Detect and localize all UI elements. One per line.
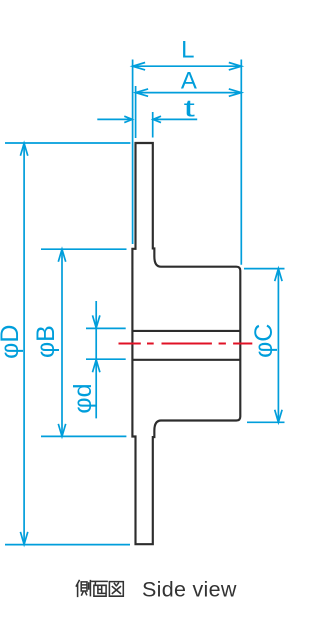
dimension D extension line bottom [5, 544, 130, 546]
dimension D line [23, 143, 25, 544]
dimension d extension line top [86, 327, 126, 329]
bore line upper [132, 330, 240, 332]
svg-text:A: A [181, 67, 197, 94]
svg-text:t: t [184, 95, 196, 122]
dimension L line [133, 65, 242, 67]
dimension A extension line left [135, 86, 137, 138]
dimension C extension line top [244, 268, 285, 270]
dimension C line [277, 269, 279, 423]
svg-text:L: L [181, 37, 194, 64]
svg-text:φC: φC [250, 324, 278, 358]
dimension t extension line right [152, 112, 154, 138]
svg-text:φD: φD [0, 325, 24, 359]
dimension D arrow top [20, 143, 27, 156]
dimension L/A extension line right [240, 60, 242, 265]
caption kanji face (men) [92, 581, 107, 596]
dimension B extension line top [41, 248, 127, 250]
dimension D extension line top [5, 142, 130, 144]
dimension A arrow right [229, 89, 242, 96]
dimension D arrow bottom [20, 532, 27, 545]
dimension L arrow left [133, 63, 146, 70]
dimension C extension line bottom [247, 421, 285, 423]
dimension t arrow left (points right) [124, 116, 132, 122]
svg-text:φd: φd [69, 383, 97, 413]
gear body profile [132, 143, 240, 544]
dimension B arrow bottom [58, 424, 65, 437]
dimension B extension line bottom [41, 435, 126, 437]
dimension d extension line bottom [86, 358, 126, 360]
dimension C arrow bottom [275, 410, 282, 423]
dimension t arrow right (points left) [153, 116, 161, 122]
centerline (red dash-dot) [119, 343, 253, 345]
dimension B arrow top [58, 249, 65, 262]
caption kanji drawing (zu) [109, 582, 123, 597]
dimension t leader left [97, 118, 132, 120]
caption kanji side (sou) [76, 581, 90, 597]
dimension d arrow lower (points up) [93, 360, 100, 373]
dimension A arrow left [136, 89, 149, 96]
dimension t leader right [153, 118, 197, 120]
svg-text:Side view: Side view [142, 577, 237, 601]
dimension C arrow top [275, 269, 282, 282]
dimension L arrow right [229, 63, 242, 70]
svg-text:φB: φB [32, 325, 60, 358]
dimension B line [61, 249, 63, 436]
dimension d arrow upper (points down) [93, 315, 100, 328]
dimension A line [136, 92, 242, 94]
dimension d line [95, 301, 97, 418]
bore line lower [132, 359, 240, 361]
dimension L extension line left [132, 60, 134, 245]
